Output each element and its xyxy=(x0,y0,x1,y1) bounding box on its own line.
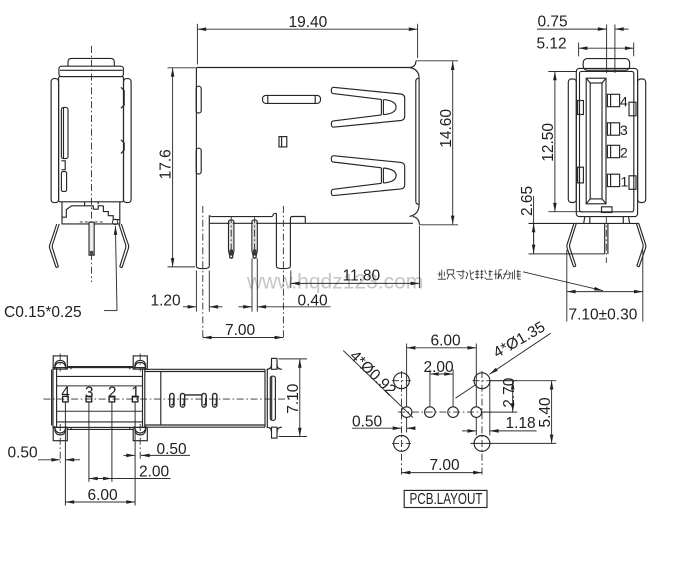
end view: right flange windows xyxy=(121,87,124,153)
top view: mounting tab top-left xyxy=(53,356,67,369)
front view: left leg xyxy=(567,224,576,267)
svg-text:3: 3 xyxy=(85,384,94,401)
svg-text:C0.15*0.25: C0.15*0.25 xyxy=(4,304,82,321)
front view: contact 1 xyxy=(607,174,619,186)
side view: left edge punched tabs xyxy=(196,86,201,174)
leader from note to 7.10 dimension xyxy=(523,272,603,291)
svg-text:12.50: 12.50 xyxy=(540,123,557,162)
PCB dimension 7.00 xyxy=(402,457,483,474)
dimension 0.40 xyxy=(239,259,331,312)
front view: center pin xyxy=(605,223,608,254)
front view: tongue xyxy=(586,78,606,204)
PCB callout 4*Ø1.35 with leader xyxy=(456,318,551,398)
end view: left leg xyxy=(49,224,59,268)
svg-text:7.00: 7.00 xyxy=(225,322,256,339)
top view: tab centerlines extended xyxy=(60,354,140,466)
svg-text:11.80: 11.80 xyxy=(343,268,381,285)
end view (top left): center line xyxy=(91,46,93,282)
svg-text:www.hqdz123.com: www.hqdz123.com xyxy=(246,271,423,294)
end view: upper cap band xyxy=(59,66,124,76)
dimension 12.50 xyxy=(540,72,583,212)
PCB layout: large mounting hole bottom-right xyxy=(474,436,490,452)
svg-text:7.10: 7.10 xyxy=(285,383,302,414)
side view (large, top middle): shell body outline xyxy=(196,61,419,225)
top view: center line xyxy=(44,398,293,400)
front view (top right): top cap xyxy=(583,59,629,71)
svg-text:14.60: 14.60 xyxy=(438,109,455,148)
svg-text:4: 4 xyxy=(620,93,628,109)
end view: top cap bump xyxy=(68,58,114,66)
side view: small center window xyxy=(279,137,287,147)
end view: left flange xyxy=(51,79,59,203)
svg-text:2.00: 2.00 xyxy=(139,464,170,481)
end view: center solder pin xyxy=(89,222,94,255)
svg-text:1.20: 1.20 xyxy=(151,293,182,310)
svg-text:2: 2 xyxy=(108,384,117,401)
PCB dimension 2.00 xyxy=(424,359,455,407)
side view: upper contact spring xyxy=(331,87,404,127)
svg-text:0.50: 0.50 xyxy=(8,445,39,462)
PCB dimension 6.00 xyxy=(407,333,477,408)
dimension 1.20 xyxy=(151,271,223,312)
front view: bottom collar xyxy=(529,217,640,224)
svg-text:6.00: 6.00 xyxy=(431,333,462,350)
top view: shell right section xyxy=(145,358,282,438)
front view: shell side windows xyxy=(578,101,636,190)
dimension 7.00 xyxy=(203,322,284,339)
end view: right leg xyxy=(119,224,129,268)
svg-text:1: 1 xyxy=(131,384,140,401)
dimension 0.50 (left) xyxy=(8,445,81,462)
dimension 19.40 xyxy=(197,14,417,65)
leader line for chamfer callout xyxy=(104,226,117,311)
front view: pin bottom extension line xyxy=(529,253,605,255)
svg-text:0.75: 0.75 xyxy=(538,14,568,31)
svg-text:7.10±0.30: 7.10±0.30 xyxy=(569,307,638,324)
PCB dimension 1.18 xyxy=(462,381,537,436)
side view: solder pin 1 xyxy=(229,220,234,258)
dimension 2.00 (top view) xyxy=(89,464,171,481)
side view: leg and pin centerlines xyxy=(203,206,284,340)
dimension 7.10 (top view) xyxy=(279,359,308,437)
side view: bottom edge and mounting legs xyxy=(196,213,413,268)
PCB layout: large mounting hole bottom-left xyxy=(394,436,410,452)
top view: mounting tab bottom-left xyxy=(53,426,67,441)
svg-text:2: 2 xyxy=(620,145,628,161)
svg-text:5.12: 5.12 xyxy=(537,36,567,53)
svg-text:PCB.LAYOUT: PCB.LAYOUT xyxy=(410,491,483,508)
side view: solder pin 2 xyxy=(252,220,257,258)
front view: contact 4 xyxy=(607,94,619,106)
PCB callout 4*Ø0.92 with leader xyxy=(343,347,413,417)
end view: base block with stepped profile xyxy=(62,202,120,224)
top view: pin pads with labels xyxy=(63,396,138,402)
dimension 14.60 xyxy=(416,61,458,225)
end view: left slot features xyxy=(61,107,68,191)
svg-text:7.00: 7.00 xyxy=(430,457,461,474)
svg-text:0.50: 0.50 xyxy=(352,414,383,431)
front view: outer shell xyxy=(576,68,637,216)
front view: contact 2 xyxy=(607,145,619,157)
svg-text:2.00: 2.00 xyxy=(424,359,455,376)
front view: contact 3 xyxy=(607,123,619,135)
svg-text:2.70: 2.70 xyxy=(501,377,518,408)
side view: top slot feature xyxy=(263,95,321,103)
svg-text:0.50: 0.50 xyxy=(157,441,188,458)
front view: left flange xyxy=(568,79,576,203)
front view: right leg xyxy=(636,224,645,267)
top view: mounting tab bottom-right xyxy=(133,426,147,441)
dimension 0.75 xyxy=(537,14,629,74)
svg-text:5.40: 5.40 xyxy=(537,397,554,428)
top view (bottom left): left block outline xyxy=(52,367,145,430)
dimension 5.12 xyxy=(537,36,634,57)
dimension 17.6 xyxy=(158,68,196,267)
PCB layout: large mounting hole top-left xyxy=(394,373,410,389)
dimension 0.50 (right) xyxy=(124,441,191,458)
front view: right flange xyxy=(638,79,646,203)
PCB layout: large mounting hole top-right xyxy=(474,373,490,389)
PCB dimension 0.50 xyxy=(352,414,414,433)
end view: right flange xyxy=(124,79,132,203)
dimension 11.80 xyxy=(291,226,420,288)
front view: bottom center tab xyxy=(602,207,613,213)
svg-text:1.18: 1.18 xyxy=(506,415,536,432)
svg-text:3: 3 xyxy=(620,122,628,138)
svg-text:1: 1 xyxy=(621,173,629,189)
front view: inner shell xyxy=(580,71,634,211)
end view: base dashed edge xyxy=(80,221,104,223)
top view: interior lines xyxy=(57,386,143,411)
note: board-pass annotation (CJK) xyxy=(438,270,521,279)
top view: latch springs seen from above xyxy=(170,393,217,407)
PCB layout: hole centerlines xyxy=(392,371,494,477)
svg-text:4: 4 xyxy=(61,384,70,401)
svg-text:19.40: 19.40 xyxy=(289,14,328,31)
PCB.LAYOUT label box xyxy=(404,490,487,508)
dimension 2.65 xyxy=(519,186,536,254)
PCB dimension 5.40 xyxy=(471,381,557,444)
dimension 7.10±0.30 xyxy=(567,250,643,324)
dimension 6.00 (top view) xyxy=(65,487,135,504)
svg-text:0.40: 0.40 xyxy=(298,293,329,310)
svg-text:2.65: 2.65 xyxy=(519,186,536,216)
svg-text:17.6: 17.6 xyxy=(158,149,175,179)
end view: main body xyxy=(59,77,124,202)
svg-text:6.00: 6.00 xyxy=(88,487,119,504)
chamfer marker circle xyxy=(112,219,117,224)
top view: mounting tab top-right xyxy=(133,356,147,369)
side view: lower contact spring xyxy=(331,156,404,196)
PCB dimension 2.70 xyxy=(482,377,518,412)
top view: pad extension lines xyxy=(65,402,135,506)
PCB layout: small pin holes xyxy=(401,407,481,418)
